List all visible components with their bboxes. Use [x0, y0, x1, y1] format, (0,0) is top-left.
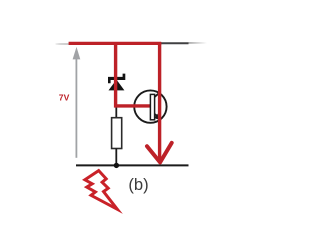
bottom rail (ground bus) [76, 164, 189, 166]
transistor Q1 emitter stroke [154, 114, 158, 117]
wire: red right branch through transistor [158, 42, 161, 162]
transistor Q1 body circle [134, 90, 166, 122]
top rail left light-gray lead [56, 43, 70, 45]
lightning bolt flash symbol [85, 171, 117, 210]
top rail right dark lead [161, 42, 189, 44]
svg-text:7V: 7V [59, 93, 70, 103]
top rail right light-gray extension [189, 42, 208, 44]
wire: black resistor top lead [115, 107, 117, 119]
wire: red zener branch down + base feed [116, 42, 151, 106]
gray voltage arrowhead [73, 47, 81, 60]
transistor Q1 base bar [150, 94, 154, 119]
zener diode D1 cathode bar [108, 74, 125, 84]
red current arrowhead at bottom [147, 143, 172, 163]
zener diode D1 anode triangle [109, 80, 125, 91]
transistor Q1 collector stroke [154, 92, 160, 97]
node junction dot [114, 163, 119, 168]
resistor R [112, 118, 122, 149]
gray voltage arrow shaft [75, 59, 77, 158]
wire: black resistor bottom lead [115, 149, 117, 166]
svg-text:(b): (b) [128, 175, 148, 194]
wire: red supply top rail [69, 42, 162, 45]
transistor Q1 emitter arrowhead [154, 114, 160, 120]
